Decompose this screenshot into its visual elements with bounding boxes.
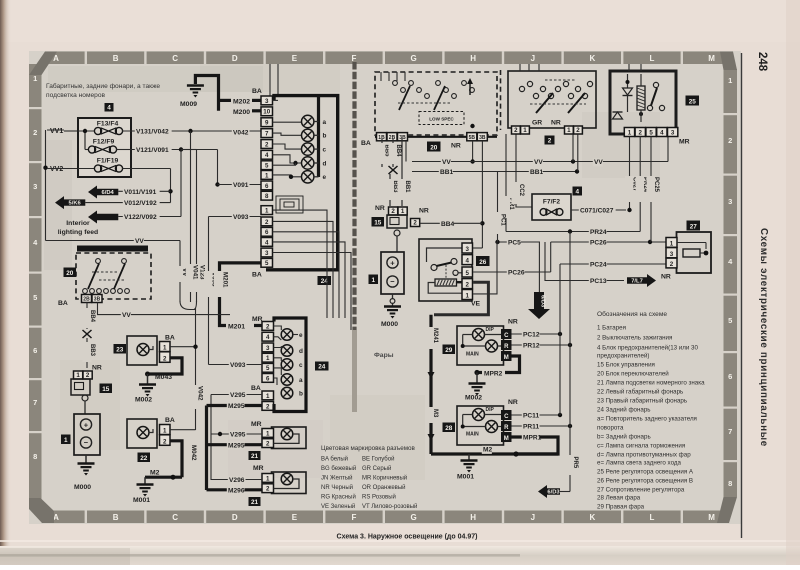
svg-text:OR Оранжевый: OR Оранжевый	[362, 484, 406, 491]
connector 1B 2B 3B	[377, 124, 475, 141]
svg-text:DIP: DIP	[486, 407, 495, 413]
svg-text:d= Лампа противотуманных фар: d= Лампа противотуманных фар	[597, 452, 691, 459]
svg-text:1: 1	[266, 475, 270, 482]
svg-text:NR: NR	[419, 208, 429, 215]
wire M295 second thick	[207, 442, 263, 450]
lower pins 1,2	[262, 391, 274, 410]
svg-text:D: D	[232, 54, 238, 63]
wire M202	[219, 98, 262, 105]
svg-text:29: 29	[445, 347, 453, 354]
svg-text:7: 7	[33, 398, 37, 407]
svg-text:L: L	[650, 513, 655, 522]
svg-text:VV: VV	[135, 238, 144, 245]
svg-text:b: b	[299, 390, 303, 397]
license plate lamp 21 (second)	[253, 465, 306, 494]
arrow interior lighting feed	[88, 211, 118, 224]
svg-text:M000: M000	[381, 321, 398, 328]
svg-text:Фары: Фары	[374, 352, 394, 359]
headlamp 29	[457, 326, 504, 365]
svg-text:NR: NR	[551, 120, 561, 127]
ground M002 left	[135, 374, 156, 404]
svg-text:NR: NR	[508, 399, 518, 406]
svg-text:BB1: BB1	[530, 169, 544, 176]
svg-text:NR: NR	[451, 143, 461, 150]
svg-text:2: 2	[86, 372, 90, 379]
svg-text:PC26: PC26	[590, 240, 607, 247]
wires BB3 BB1 vertical	[386, 139, 411, 206]
svg-text:VV: VV	[442, 159, 451, 166]
arrow 6/D3 down	[528, 292, 550, 319]
svg-text:V041: V041	[192, 265, 199, 280]
label 25	[686, 96, 700, 106]
ground M002 center	[465, 373, 486, 402]
wire M3 trunk	[425, 315, 438, 454]
svg-text:J: J	[531, 54, 535, 63]
svg-text:2: 2	[266, 441, 270, 448]
svg-text:M043: M043	[155, 374, 172, 381]
svg-text:10: 10	[263, 109, 270, 116]
svg-text:M001: M001	[457, 474, 474, 481]
svg-text:A: A	[53, 513, 59, 522]
switch block 20 left (dashed)	[76, 253, 151, 299]
svg-text:2: 2	[514, 127, 518, 134]
label 1 left	[61, 435, 71, 445]
svg-text:29 Правая фара: 29 Правая фара	[597, 504, 645, 511]
wire PC25 vertical	[647, 137, 660, 243]
svg-text:22 Левый габаритный фонарь: 22 Левый габаритный фонарь	[597, 389, 683, 396]
svg-text:VV: VV	[534, 159, 543, 166]
svg-text:E: E	[292, 54, 298, 63]
wire V296	[211, 476, 262, 484]
svg-text:2: 2	[163, 438, 167, 445]
wire PR trunk vertical	[566, 232, 579, 492]
svg-text:MR: MR	[251, 421, 262, 428]
svg-text:GR: GR	[532, 120, 542, 127]
svg-text:4: 4	[107, 104, 111, 111]
svg-text:1: 1	[523, 127, 527, 134]
label 21 first	[249, 451, 261, 460]
wire PC trunk vertical	[559, 264, 561, 415]
lower lamp unit 24 thick frame	[274, 318, 306, 412]
svg-text:3: 3	[671, 130, 675, 137]
svg-text:7/L7: 7/L7	[631, 279, 643, 285]
svg-text:F7/F2: F7/F2	[543, 199, 561, 206]
svg-text:248: 248	[756, 52, 768, 72]
svg-text:27 Сопротивление регулятора: 27 Сопротивление регулятора	[597, 487, 685, 494]
label 15 left	[100, 384, 113, 394]
svg-text:+: +	[84, 421, 89, 430]
wire C071/C027	[571, 207, 632, 215]
svg-text:1: 1	[265, 172, 269, 179]
svg-text:NR Черный: NR Черный	[321, 484, 353, 491]
svg-text:26: 26	[479, 259, 487, 266]
svg-text:M241: M241	[432, 328, 438, 344]
svg-text:25: 25	[689, 98, 697, 105]
wire V122/V092	[118, 150, 181, 222]
svg-text:Interior: Interior	[66, 220, 90, 227]
svg-text:1: 1	[371, 277, 375, 284]
svg-text:BB1: BB1	[440, 169, 454, 176]
svg-text:BA: BA	[58, 300, 68, 307]
wires pins to lamps	[273, 100, 302, 179]
svg-text:1: 1	[266, 393, 270, 400]
wire PR24 horizontal	[506, 228, 640, 236]
label 15 center	[372, 217, 385, 227]
svg-text:1: 1	[266, 430, 270, 437]
svg-text:Габаритные, задние фонари, а т: Габаритные, задние фонари, а также	[46, 82, 160, 90]
svg-text:4: 4	[265, 239, 269, 246]
wire VV mid	[98, 303, 231, 320]
wire CC2	[512, 134, 533, 207]
wire block26 pin1 up	[473, 242, 497, 294]
svg-text:LOW SPEC: LOW SPEC	[429, 117, 454, 122]
ground M001 left	[133, 477, 154, 504]
svg-text:e: e	[323, 174, 327, 181]
svg-text:2: 2	[266, 486, 270, 493]
frame bottom header band	[46, 511, 722, 524]
svg-text:M009: M009	[180, 101, 197, 108]
ghost bleed-through texture	[48, 66, 263, 92]
svg-text:1: 1	[163, 428, 167, 435]
svg-text:6/D3: 6/D3	[547, 490, 560, 496]
svg-text:NR: NR	[508, 319, 518, 326]
svg-text:15: 15	[374, 219, 382, 226]
wire block26 pin2 to M3 trunk	[434, 282, 488, 315]
connector 2B 3B	[82, 295, 103, 303]
svg-text:J: J	[531, 513, 535, 522]
section divider dashed bar	[352, 62, 356, 330]
lamp bus	[317, 96, 320, 177]
label 22	[138, 453, 151, 463]
svg-text:1: 1	[265, 208, 269, 215]
svg-text:3: 3	[265, 98, 269, 105]
arrow 5/K6	[55, 196, 85, 209]
svg-text:C: C	[172, 54, 178, 63]
svg-text:подсветка номеров: подсветка номеров	[46, 92, 106, 99]
svg-text:Схема 3. Наружное освещение (д: Схема 3. Наружное освещение (до 04.97)	[337, 534, 478, 541]
svg-text:BA: BA	[252, 88, 262, 95]
legend list	[597, 325, 705, 511]
fuse box 4 label	[105, 103, 114, 112]
svg-text:BB3: BB3	[89, 344, 95, 357]
relay 25 internals	[613, 74, 665, 122]
svg-text:1: 1	[728, 76, 732, 85]
svg-text:BG бежевый: BG бежевый	[321, 465, 356, 472]
svg-text:1: 1	[64, 437, 68, 444]
wire PR1	[502, 134, 515, 232]
svg-text:b= Задний фонарь: b= Задний фонарь	[597, 434, 651, 441]
arrow 6/D3 left	[538, 485, 570, 498]
svg-text:V296: V296	[229, 477, 245, 484]
svg-text:BB1: BB1	[404, 181, 410, 194]
svg-text:6/D3: 6/D3	[540, 295, 546, 308]
svg-text:PR24: PR24	[590, 229, 607, 236]
svg-text:MPR1: MPR1	[523, 435, 542, 442]
wire BB1 long	[412, 168, 579, 176]
svg-text:21: 21	[251, 499, 259, 506]
svg-text:BA белый: BA белый	[321, 456, 348, 463]
svg-text:2: 2	[265, 219, 269, 226]
label 2	[545, 136, 555, 145]
wire PR24 vertical	[636, 137, 649, 232]
wire M200	[233, 109, 261, 116]
battery 1 center	[381, 236, 404, 294]
svg-text:BB3: BB3	[392, 181, 398, 194]
svg-text:F12/F9: F12/F9	[93, 139, 115, 146]
label 23	[114, 344, 127, 354]
svg-text:24: 24	[318, 363, 326, 370]
svg-text:M: M	[708, 54, 715, 63]
svg-text:L: L	[650, 54, 655, 63]
wire F1/F19 output	[122, 169, 173, 203]
wire M2 center	[431, 446, 558, 457]
label 20 center	[427, 142, 441, 152]
relay 25 top stubs	[628, 64, 630, 71]
fuse F1/F19	[78, 158, 123, 173]
lamps a-e of unit 24	[302, 115, 327, 183]
svg-text:V011/V191: V011/V191	[124, 189, 157, 196]
connector pins 1 2 of block 2	[565, 126, 583, 134]
wire VV bottom	[46, 237, 181, 302]
svg-text:E: E	[292, 513, 298, 522]
wire M2 left	[145, 470, 182, 480]
wire V131/V042	[122, 128, 261, 137]
svg-text:5/K6: 5/K6	[69, 201, 82, 207]
svg-text:3B: 3B	[479, 135, 486, 141]
bottom page edge	[0, 546, 800, 565]
svg-text:20: 20	[66, 270, 74, 277]
svg-text:M201: M201	[222, 272, 229, 288]
diagram interior background	[29, 51, 741, 524]
svg-text:3B: 3B	[399, 135, 406, 141]
svg-text:VV: VV	[122, 312, 131, 319]
svg-text:VV1: VV1	[50, 128, 63, 135]
svg-text:15 Блок управления: 15 Блок управления	[597, 362, 655, 369]
wire VV1 left bus	[43, 130, 64, 241]
svg-text:M042: M042	[190, 445, 197, 461]
wire V121/V091	[131, 146, 197, 154]
svg-text:PC1: PC1	[500, 214, 506, 226]
pins C R M of 29	[501, 319, 518, 362]
fuse F13/F4	[78, 121, 123, 150]
svg-text:JN Желтый: JN Желтый	[321, 475, 353, 482]
svg-text:24 Задний фонарь: 24 Задний фонарь	[597, 407, 651, 414]
fuse box F7/F2	[532, 194, 571, 220]
label 20 left	[64, 268, 77, 278]
wire PC26 from pin5	[473, 239, 668, 277]
svg-text:M002: M002	[465, 395, 482, 402]
frame top header band	[46, 52, 724, 65]
svg-text:C: C	[504, 333, 509, 339]
sidebar separator line	[741, 53, 743, 538]
svg-text:2: 2	[466, 282, 470, 289]
svg-text:PR12: PR12	[523, 343, 540, 350]
svg-text:M202: M202	[233, 98, 250, 105]
wire V042 vertical down	[191, 308, 204, 430]
svg-text:DIP: DIP	[486, 327, 495, 333]
svg-text:3: 3	[266, 345, 270, 352]
svg-text:2: 2	[163, 355, 167, 362]
wire M295 first thick	[207, 402, 263, 490]
svg-text:R: R	[504, 425, 509, 431]
svg-text:23: 23	[116, 346, 124, 353]
wires lower pins to lamps	[274, 326, 299, 385]
svg-text:c: c	[323, 146, 327, 153]
svg-text:NR: NR	[92, 365, 102, 372]
svg-text:PC24: PC24	[590, 262, 607, 269]
relay 25 thick frame	[610, 71, 676, 134]
svg-text:H: H	[470, 513, 476, 522]
svg-text:M200: M200	[233, 109, 250, 116]
relay block 26	[419, 239, 472, 301]
svg-text:MAIN: MAIN	[466, 352, 479, 358]
svg-text:23 Правый габаритный фонарь: 23 Правый габаритный фонарь	[597, 398, 687, 405]
svg-text:M295: M295	[228, 403, 245, 410]
svg-text:M: M	[504, 436, 509, 442]
wires to frame top	[269, 64, 271, 96]
svg-text:b: b	[323, 133, 327, 140]
svg-text:1: 1	[266, 355, 270, 362]
frame corner bevels	[29, 52, 57, 76]
arrow 7/L7	[627, 274, 656, 287]
battery 1 left	[74, 401, 100, 455]
svg-text:d: d	[299, 348, 303, 355]
svg-text:M000: M000	[74, 484, 91, 491]
svg-text:PC12: PC12	[523, 332, 540, 339]
svg-text:lighting feed: lighting feed	[58, 229, 98, 236]
wire VV long	[412, 137, 668, 167]
svg-text:3: 3	[265, 250, 269, 257]
section divider gray bar	[352, 330, 357, 412]
svg-text:BB4: BB4	[89, 310, 95, 323]
svg-text:B: B	[113, 54, 119, 63]
svg-text:M001: M001	[133, 497, 150, 504]
svg-text:4: 4	[266, 334, 270, 341]
svg-text:VT Лилово-розовый: VT Лилово-розовый	[362, 503, 417, 510]
svg-text:2B: 2B	[389, 135, 396, 141]
svg-text:5: 5	[728, 316, 732, 325]
svg-text:28 Левая фара: 28 Левая фара	[597, 495, 641, 502]
svg-text:2: 2	[728, 136, 732, 145]
wire V093 upper	[204, 213, 261, 364]
svg-text:BA: BA	[165, 417, 175, 424]
wires from block2 pins down	[572, 134, 574, 161]
position lamp 22	[127, 417, 175, 448]
svg-text:3: 3	[670, 251, 674, 258]
svg-text:3: 3	[728, 197, 732, 206]
svg-text:4: 4	[660, 130, 664, 137]
label 27	[687, 221, 701, 231]
svg-text:M295: M295	[228, 442, 245, 449]
svg-text:V122/V092: V122/V092	[124, 214, 157, 221]
svg-text:1: 1	[466, 293, 470, 300]
svg-text:e: e	[299, 332, 303, 339]
svg-text:3: 3	[466, 246, 470, 253]
svg-text:C: C	[172, 513, 178, 522]
svg-text:6: 6	[265, 183, 269, 190]
wire PC5	[495, 239, 539, 292]
svg-text:M2: M2	[150, 470, 160, 477]
svg-text:B: B	[113, 513, 119, 522]
wire V091 branch	[197, 150, 262, 190]
svg-text:K: K	[590, 513, 596, 522]
svg-text:BE Голубой: BE Голубой	[362, 456, 394, 463]
svg-text:21: 21	[251, 453, 259, 460]
svg-text:7: 7	[728, 427, 732, 436]
svg-text:2: 2	[391, 208, 395, 215]
svg-text:MAIN: MAIN	[466, 432, 479, 438]
wires from 5B 3B connectors down	[406, 141, 485, 248]
svg-text:6: 6	[33, 346, 37, 355]
svg-text:VV2: VV2	[50, 166, 63, 173]
wire PC13	[545, 242, 624, 285]
wire V295 second	[211, 431, 262, 439]
svg-text:d: d	[323, 160, 327, 167]
svg-text:NR: NR	[661, 274, 671, 281]
resistor block 27	[661, 232, 711, 281]
svg-text:20: 20	[430, 144, 438, 151]
lower connector pins 2,4,3,1,5,6	[262, 322, 274, 383]
svg-text:PR5: PR5	[572, 457, 578, 469]
wire PR12	[512, 342, 573, 350]
svg-text:V012/V192: V012/V192	[124, 200, 157, 207]
svg-text:MR: MR	[252, 316, 263, 323]
svg-text:1: 1	[76, 372, 80, 379]
svg-text:5: 5	[466, 270, 470, 277]
pins C R M of 28	[501, 399, 518, 442]
svg-text:28: 28	[445, 425, 453, 432]
wire PC24	[560, 261, 666, 269]
svg-text:M296: M296	[228, 487, 245, 494]
svg-text:V093: V093	[233, 214, 249, 221]
svg-text:K: K	[590, 54, 596, 63]
wire V041 vertical	[190, 131, 192, 302]
wires BB5 BB4 center	[377, 139, 401, 167]
svg-text:5: 5	[265, 163, 269, 170]
svg-text:5: 5	[33, 293, 37, 302]
junction X center	[389, 166, 398, 174]
wire 23 pin2 to M043	[145, 358, 182, 381]
svg-text:20 Блок переключателей: 20 Блок переключателей	[597, 371, 669, 378]
svg-text:VV: VV	[594, 159, 603, 166]
svg-text:VE Зеленый: VE Зеленый	[321, 503, 355, 510]
frame left row strip	[29, 64, 42, 509]
svg-text:6: 6	[266, 375, 270, 382]
svg-text:BA: BA	[361, 140, 371, 147]
headlamp 28	[457, 406, 504, 445]
svg-text:PC26: PC26	[508, 270, 525, 277]
svg-text:D: D	[232, 513, 238, 522]
svg-text:M2: M2	[483, 447, 492, 454]
control unit 15 left	[71, 365, 102, 402]
svg-text:6: 6	[265, 229, 269, 236]
wire 22 pin2 M042	[170, 441, 197, 477]
rotated labels VV V041 V123	[176, 264, 206, 292]
svg-text:V093: V093	[230, 362, 246, 369]
svg-text:1: 1	[33, 74, 37, 83]
svg-text:PR11: PR11	[523, 424, 539, 431]
pins of 26 (3,4,5,2,1)	[462, 243, 473, 300]
svg-text:−: −	[390, 277, 395, 286]
svg-text:1: 1	[567, 127, 571, 134]
svg-text:5: 5	[649, 130, 653, 137]
svg-text:BB4: BB4	[441, 221, 455, 228]
wire PR11	[512, 423, 573, 431]
svg-text:2 Выключатель зажигания: 2 Выключатель зажигания	[597, 335, 672, 342]
svg-text:RG Красный: RG Красный	[321, 494, 356, 501]
svg-text:3: 3	[33, 182, 37, 191]
wire V295 first	[211, 391, 262, 480]
